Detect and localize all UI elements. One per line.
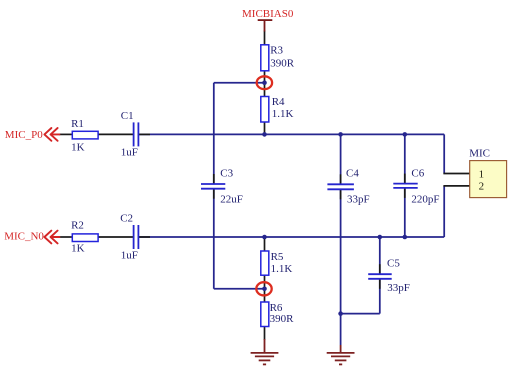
svg-text:33pF: 33pF [347, 193, 370, 205]
svg-text:C2: C2 [120, 212, 133, 224]
svg-text:1uF: 1uF [121, 249, 138, 261]
svg-text:C6: C6 [411, 167, 424, 179]
svg-text:MICBIAS0: MICBIAS0 [242, 8, 294, 20]
svg-text:22uF: 22uF [220, 194, 243, 206]
svg-text:1.1K: 1.1K [272, 108, 294, 120]
svg-text:R5: R5 [271, 251, 284, 263]
svg-text:390R: 390R [270, 313, 295, 325]
svg-text:1K: 1K [71, 141, 85, 153]
svg-text:1uF: 1uF [121, 147, 138, 159]
svg-text:MIC: MIC [469, 148, 490, 160]
svg-text:1.1K: 1.1K [271, 263, 293, 275]
svg-text:C3: C3 [220, 167, 233, 179]
svg-text:R3: R3 [270, 45, 283, 57]
svg-text:C5: C5 [387, 257, 400, 269]
svg-text:1: 1 [479, 168, 485, 180]
svg-text:33pF: 33pF [387, 282, 410, 294]
svg-text:MIC_P0: MIC_P0 [5, 129, 43, 141]
svg-text:390R: 390R [270, 58, 295, 70]
svg-text:2: 2 [479, 181, 485, 193]
svg-text:R4: R4 [272, 96, 285, 108]
svg-text:1K: 1K [71, 243, 85, 255]
svg-text:C4: C4 [346, 167, 359, 179]
svg-text:MIC_N0: MIC_N0 [4, 231, 44, 243]
svg-text:220pF: 220pF [411, 193, 439, 205]
svg-text:C1: C1 [121, 110, 134, 122]
svg-text:R2: R2 [71, 219, 84, 231]
svg-text:R1: R1 [71, 118, 84, 130]
